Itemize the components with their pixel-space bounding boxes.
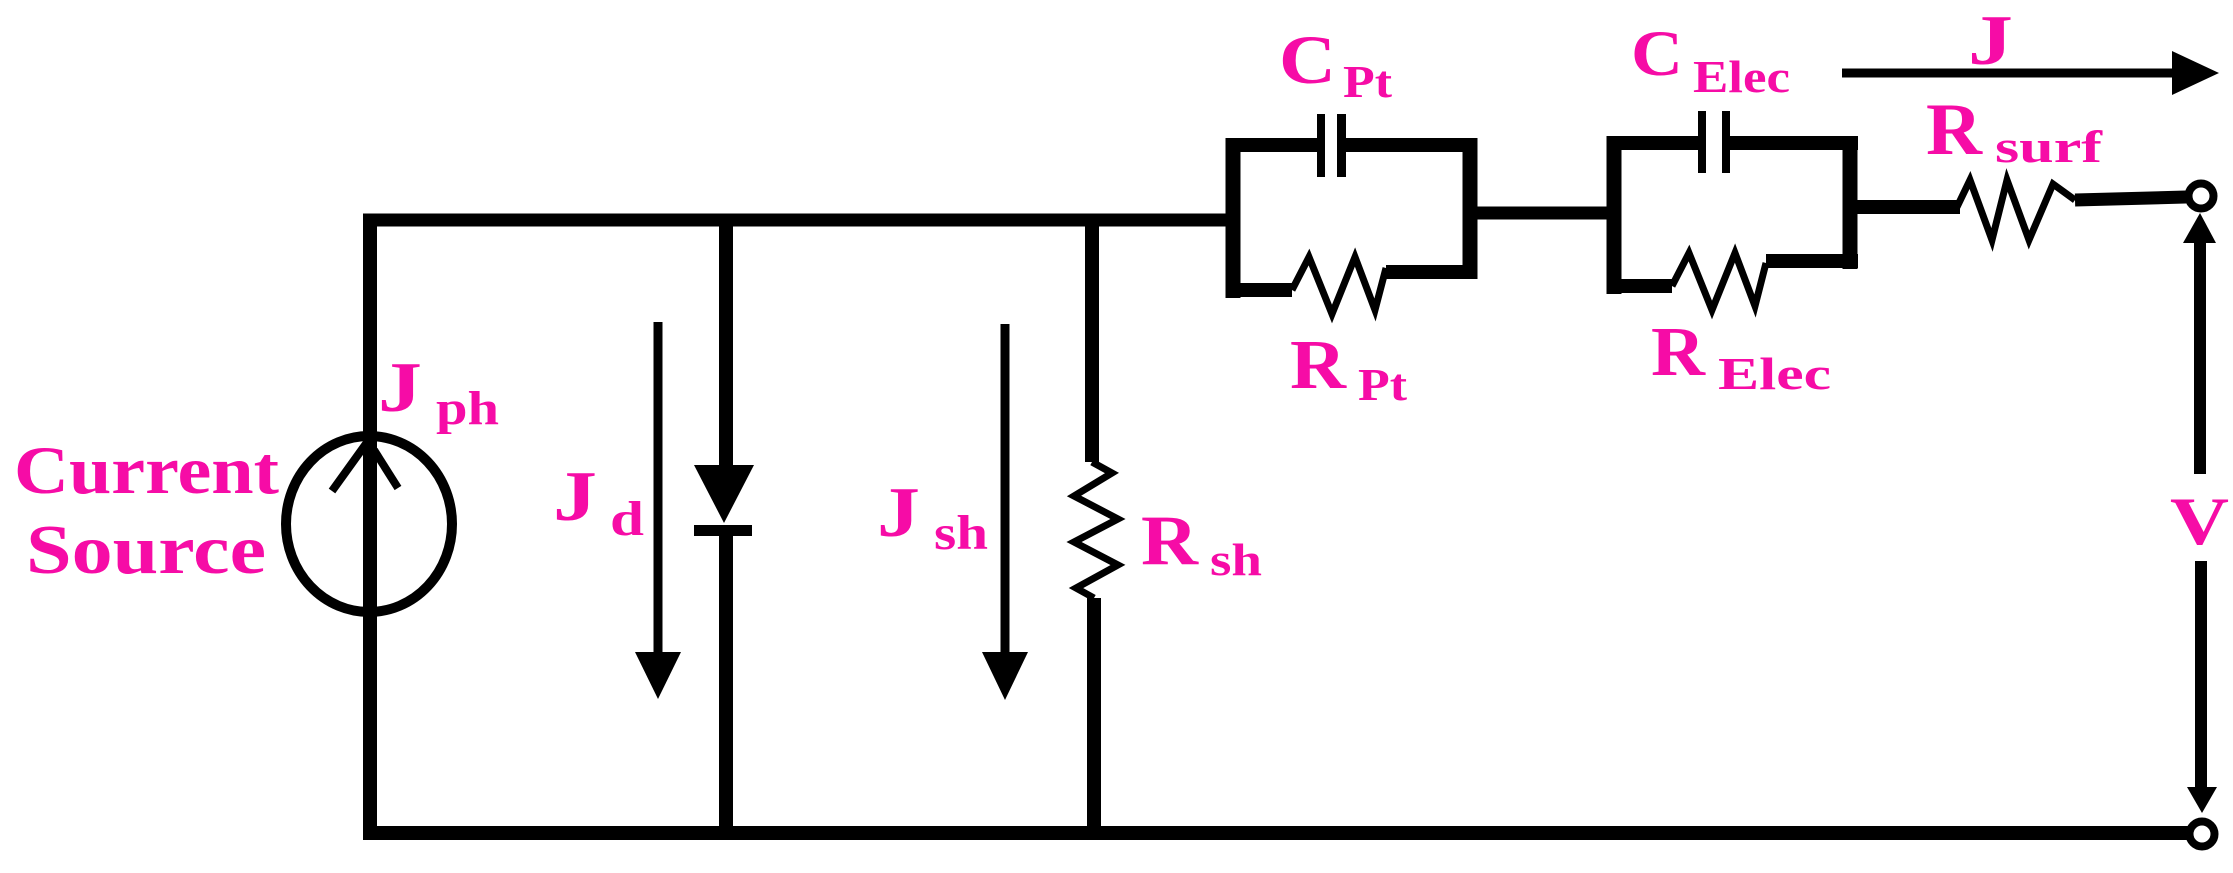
wire between RC boxes — [1463, 207, 1620, 220]
box1 bottom wire right — [1386, 265, 1477, 279]
current arrow J_d shaft — [654, 322, 663, 655]
wire diode branch lower — [719, 530, 733, 833]
diode D1 triangle — [694, 465, 754, 523]
current arrow J_sh shaft — [1001, 324, 1010, 655]
box2 bottom wire left — [1607, 279, 1672, 293]
resistor R_Elec zigzag — [1672, 253, 1766, 310]
box1 top wire left of cap — [1226, 138, 1318, 152]
svg-text:C: C — [1631, 18, 1683, 90]
svg-text:ph: ph — [436, 382, 499, 435]
wire diode branch — [719, 214, 733, 470]
wire R_sh branch lower — [1087, 598, 1101, 833]
box1 left vertical — [1226, 138, 1241, 298]
box1 top wire right of cap — [1345, 138, 1477, 152]
svg-text:Elec: Elec — [1718, 348, 1831, 399]
box1 bottom wire left — [1226, 283, 1292, 297]
box2 bottom wire right — [1766, 254, 1858, 268]
svg-text:J: J — [877, 474, 920, 552]
svg-text:sh: sh — [934, 505, 988, 560]
svg-text:R: R — [1290, 327, 1348, 404]
svg-text:d: d — [610, 491, 644, 546]
voltage arrow V down head — [2187, 787, 2217, 813]
box2 left vertical — [1607, 136, 1622, 294]
svg-text:V: V — [2170, 483, 2229, 559]
voltage arrow V up head — [2183, 213, 2216, 243]
svg-text:Pt: Pt — [1358, 359, 1408, 410]
wire box2 to R_surf — [1843, 200, 1960, 214]
voltage arrow V upper shaft — [2194, 243, 2206, 474]
terminal bottom circle — [2190, 822, 2215, 847]
current arrow J_sh head — [982, 652, 1028, 700]
svg-text:Pt: Pt — [1343, 56, 1393, 107]
svg-text:J: J — [1968, 2, 2013, 80]
current arrow J head — [2172, 51, 2219, 95]
capacitor C_Elec right plate — [1722, 111, 1730, 173]
diode D1 cathode bar — [694, 525, 752, 536]
box2 top wire right of cap — [1730, 136, 1858, 150]
capacitor C_Pt left plate — [1317, 114, 1325, 177]
capacitor C_Elec left plate — [1698, 111, 1706, 173]
current source arrow barb right — [374, 450, 398, 488]
current source arrow barb left — [332, 441, 368, 491]
wire R_surf to terminal — [2075, 197, 2186, 200]
wire left vertical — [363, 214, 377, 839]
svg-text:J: J — [378, 349, 422, 427]
voltage arrow V lower shaft — [2195, 561, 2207, 790]
svg-text:Elec: Elec — [1693, 51, 1790, 102]
wire R_sh branch upper — [1085, 214, 1099, 462]
svg-text:J: J — [553, 458, 597, 536]
svg-text:Source: Source — [26, 512, 266, 589]
svg-text:sh: sh — [1210, 534, 1262, 585]
svg-text:R: R — [1926, 89, 1984, 171]
current source J_ph circle — [286, 436, 452, 612]
wire top bus — [363, 214, 1240, 227]
svg-text:C: C — [1279, 22, 1336, 98]
svg-text:R: R — [1141, 502, 1199, 580]
svg-text:Current: Current — [14, 432, 279, 508]
terminal top circle — [2189, 184, 2214, 209]
box2 right vertical — [1843, 136, 1858, 269]
resistor R_sh zigzag — [1074, 462, 1118, 598]
resistor R_Pt zigzag — [1292, 257, 1386, 314]
box1 right vertical — [1463, 138, 1478, 279]
svg-text:R: R — [1651, 314, 1707, 391]
wire bottom bus — [363, 826, 2188, 840]
current arrow J_d head — [635, 652, 681, 699]
resistor R_surf zigzag — [1957, 180, 2075, 240]
svg-text:surf: surf — [1995, 121, 2103, 172]
capacitor C_Pt right plate — [1337, 114, 1346, 177]
box2 top wire left of cap — [1607, 136, 1702, 150]
current arrow J shaft — [1842, 69, 2174, 78]
